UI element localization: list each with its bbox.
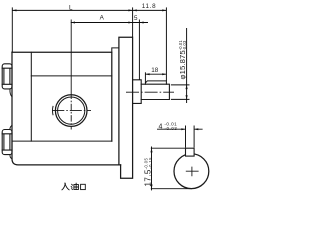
svg-text:11.8: 11.8 — [142, 3, 157, 10]
svg-text:φ15.875-0.01-0.03: φ15.875-0.01-0.03 — [178, 40, 187, 80]
svg-text:L: L — [69, 4, 73, 11]
svg-text:18: 18 — [151, 67, 159, 74]
svg-text:17.5-0.05-0.15: 17.5-0.05-0.15 — [144, 157, 153, 187]
svg-text:5: 5 — [134, 15, 138, 22]
svg-text:4-0.01-0.03: 4-0.01-0.03 — [159, 121, 178, 131]
